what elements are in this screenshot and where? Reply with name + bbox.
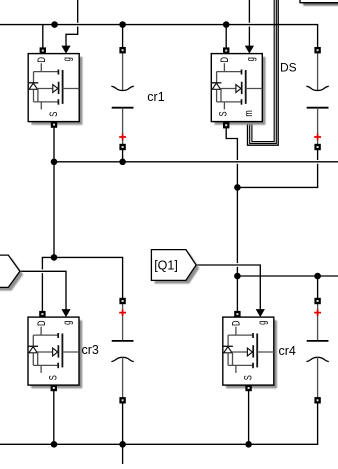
node junction lower net / cr4 <box>314 273 321 280</box>
svg-text:S: S <box>217 111 230 116</box>
capacitor cr4 bottom lead <box>317 357 319 398</box>
svg-text:S: S <box>242 375 255 380</box>
svg-text:g: g <box>61 57 74 61</box>
wire branch to drain D of Q1 block <box>42 25 44 48</box>
svg-text:D: D <box>219 57 232 63</box>
node junction top bus / cr1 <box>119 21 126 28</box>
capacitor cr1 straight plate <box>112 107 134 109</box>
port bottom of capacitor cr4 <box>314 397 320 403</box>
wire lower right net to edge <box>237 275 338 277</box>
wire branch to drain D of Q2 block <box>225 25 227 48</box>
wire middle rail net A <box>54 161 338 163</box>
capacitor DS top lead <box>317 53 319 90</box>
mosfet block Q2 shadow <box>215 57 266 125</box>
mosfet block Q4 shadow <box>226 320 277 388</box>
mosfet icon drawing Q2 <box>212 63 262 109</box>
wire branch to capacitor cr4 top <box>317 276 319 299</box>
port D of Q2 <box>223 47 229 53</box>
input arrow into g of Q2 <box>245 46 254 54</box>
wire branch to capacitor cr1 top <box>122 25 124 48</box>
goto tag [Q1] body <box>151 250 196 281</box>
port D of Q4 <box>234 311 240 317</box>
capacitor cr1 top lead <box>122 53 124 90</box>
wire top DC+ bus with corner to capacitor DS <box>0 25 318 48</box>
svg-text:cr4: cr4 <box>279 344 296 358</box>
port top of capacitor DS <box>314 47 320 53</box>
mosfet icon drawing Q3 <box>29 327 80 373</box>
capacitor DS straight plate <box>307 107 329 109</box>
capacitor cr4 plus sign <box>314 309 321 316</box>
node junction rail / Q1 source <box>51 159 58 166</box>
node junction bottom rail / Q3 source <box>51 441 58 448</box>
node junction right leg / lower net <box>234 273 241 280</box>
wire from S of Q1 block down to lower junction <box>53 127 55 257</box>
port S of Q3 <box>51 385 57 391</box>
svg-text:g: g <box>61 321 74 325</box>
port S of Q1 <box>51 121 57 127</box>
wire gate signal into Q2 g (hops over bus) <box>248 0 250 46</box>
port D of Q1 <box>40 47 46 53</box>
wire measurement bus outer line from m of Q2 <box>248 0 279 145</box>
mosfet block Q4 body <box>223 317 274 385</box>
wire junction to capacitor cr3 top <box>54 257 123 298</box>
svg-text:cr1: cr1 <box>147 90 164 104</box>
node junction left leg split <box>51 254 58 261</box>
node junction top bus / Q1 drain <box>51 21 58 28</box>
node junction rail / cr1 bottom <box>119 159 126 166</box>
node junction right leg / cap DS link <box>234 184 241 191</box>
wire measurement bus middle line <box>250 0 277 143</box>
capacitor cr4 curved plate <box>306 357 328 361</box>
goto tag [Q1] shadow <box>155 253 200 284</box>
svg-text:g: g <box>256 321 269 325</box>
capacitor cr1 plus sign <box>119 134 126 141</box>
mosfet block Q1 shadow <box>31 57 82 125</box>
svg-text:cr3: cr3 <box>82 343 99 357</box>
mosfet block Q3 shadow <box>31 320 82 388</box>
port D of Q3 <box>39 311 45 317</box>
wire from S of Q4 to bottom rail <box>248 388 250 444</box>
node junction bottom rail / Q4 source <box>245 441 252 448</box>
port bottom of capacitor DS <box>314 144 320 150</box>
capacitor DS bottom lead <box>317 108 319 144</box>
wire gate signal into Q1 g (hops over bus) <box>66 0 78 46</box>
svg-text:S: S <box>48 112 61 117</box>
wire capacitor cr3 bottom through rail off bottom edge <box>122 403 124 464</box>
capacitor cr1 bottom lead <box>122 108 124 144</box>
mosfet block Q2 body <box>211 54 262 122</box>
wire from left goto tag to gate g of Q3 <box>20 271 66 309</box>
port bottom of capacitor cr3 <box>119 397 125 403</box>
mosfet icon drawing Q4 <box>223 327 273 373</box>
wire capacitor cr1 bottom to rail <box>122 150 124 162</box>
port top of capacitor cr1 <box>119 47 125 53</box>
wire junction to drain D of Q3 block <box>42 257 54 312</box>
svg-text:D: D <box>36 57 49 63</box>
svg-text:D: D <box>230 320 243 326</box>
input arrow into g of Q4 <box>256 309 265 317</box>
svg-text:[Q1]: [Q1] <box>154 259 178 273</box>
left goto tag (partial) shadow <box>0 258 23 290</box>
svg-text:D: D <box>36 320 49 326</box>
capacitor DS plus sign <box>314 134 321 141</box>
capacitor cr3 plus sign <box>119 309 126 316</box>
svg-text:g: g <box>244 57 257 61</box>
port S of Q4 <box>245 385 251 391</box>
node junction bottom rail / cr3 <box>119 441 126 448</box>
port top of capacitor cr4 <box>314 298 320 304</box>
left goto tag (partial) body <box>0 255 20 287</box>
capacitor cr1 curved plate <box>111 86 133 90</box>
mosfet icon drawing Q1 <box>29 63 79 109</box>
capacitor DS curved plate <box>306 86 328 90</box>
input arrow into g of Q1 <box>61 46 70 54</box>
input arrow into g of Q3 <box>61 309 70 317</box>
partial block top-right shadow <box>303 0 338 6</box>
mosfet block Q3 body <box>28 317 79 385</box>
svg-text:DS: DS <box>280 61 297 75</box>
capacitor cr4 top lead <box>317 304 319 341</box>
wire bottom DC- rail with corner to capacitor cr4 <box>0 403 318 445</box>
wire measurement bus inner line <box>252 0 274 142</box>
wire capacitor DS bottom to right leg (hops rail) <box>237 150 317 188</box>
partial block top-right body <box>300 0 338 3</box>
capacitor cr3 top lead <box>122 304 124 341</box>
node junction top bus / Q2 drain <box>223 21 230 28</box>
svg-text:S: S <box>47 375 60 380</box>
mosfet block Q1 body <box>28 54 79 122</box>
wire from [Q1] tag to gate g of Q4 <box>196 265 260 310</box>
capacitor cr4 straight plate <box>307 340 329 342</box>
capacitor cr3 bottom lead <box>122 357 124 398</box>
port bottom of capacitor cr1 <box>119 144 125 150</box>
capacitor cr3 straight plate <box>112 340 134 342</box>
svg-text:m: m <box>243 110 256 116</box>
wire from S of Q3 to bottom rail <box>53 388 55 444</box>
port S of Q2 <box>223 122 229 128</box>
port top of capacitor cr3 <box>119 298 125 304</box>
capacitor cr3 curved plate <box>111 357 133 361</box>
wire from S of Q2 down right leg (hops rail and Q1 wire) <box>226 127 237 312</box>
